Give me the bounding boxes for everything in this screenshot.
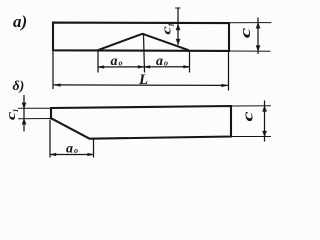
arrow c down (figure b): [263, 131, 267, 137]
svg-text:c: c: [240, 111, 256, 122]
label a0 (figure b): [66, 142, 78, 157]
c1 apex dimension line: [177, 8, 179, 45]
extension line c top (figure b): [231, 105, 271, 107]
extension line c top (figure a): [229, 22, 271, 24]
arrow L left: [54, 84, 61, 87]
extension line a0 left (figure b): [49, 120, 51, 157]
svg-text:1: 1: [11, 109, 20, 113]
arrow a0 right: [184, 65, 190, 68]
svg-text:o: o: [119, 59, 123, 68]
arrow a0 left (figure b): [50, 153, 56, 156]
arrow c1 up: [176, 25, 180, 31]
dimension line a0 (figure b): [50, 154, 94, 156]
svg-text:a: a: [66, 142, 73, 157]
extension line a0 right (figure b): [93, 139, 95, 157]
svg-text:L: L: [138, 72, 148, 88]
extension line a0 right: [189, 51, 191, 73]
extension line c1 bottom (figure b): [19, 118, 52, 120]
label c1 (figure b, rotated): [4, 109, 20, 121]
svg-text:δ): δ): [13, 79, 25, 94]
extension line a0 left: [97, 51, 99, 72]
dimension line a0-a0: [98, 66, 190, 68]
bar outline (figure b): [51, 106, 231, 139]
extension line c bottom (figure b): [231, 136, 271, 138]
arrow a0 left: [98, 66, 104, 69]
arrow c1 down: [176, 39, 180, 45]
svg-text:1: 1: [167, 23, 176, 27]
extension line L left: [52, 52, 54, 89]
arrow a0 right (figure b): [88, 153, 94, 156]
svg-text:a: a: [111, 54, 118, 69]
arrow a0 mid-left: [138, 66, 144, 69]
label a0 (right): [156, 54, 168, 69]
extension line L right: [228, 52, 230, 90]
svg-text:a: a: [156, 54, 163, 69]
label b): [13, 79, 25, 94]
svg-text:o: o: [74, 146, 78, 155]
bar outline (figure a): [53, 23, 229, 51]
label a): [13, 12, 27, 31]
arrow c up (figure b): [263, 106, 267, 112]
svg-text:a): a): [13, 12, 27, 31]
arrow a0 mid-right: [144, 66, 150, 69]
dimension line c (figure a): [257, 18, 259, 54]
dimension line L: [54, 84, 228, 87]
arrow c1 up onto bottom line (figure b): [22, 119, 26, 125]
svg-text:o: o: [164, 59, 168, 68]
label c1 (rotated): [159, 23, 175, 35]
label L: [138, 72, 148, 88]
tick at top of c1 line: [176, 7, 181, 9]
arrow c down (figure a): [256, 46, 260, 52]
label a0 (left): [111, 54, 123, 69]
label c (figure a, rotated): [238, 27, 254, 38]
extension line c1 top (figure b): [19, 107, 52, 109]
hump centerline / middle extension line: [144, 35, 145, 73]
label c (figure b, rotated): [240, 111, 256, 122]
arrow c1 down onto top line (figure b): [22, 103, 26, 109]
hump (triangular thickening): [98, 34, 189, 51]
dimension line c (figure b): [264, 101, 266, 141]
svg-text:c: c: [238, 27, 254, 38]
extension line c bottom (figure a): [229, 50, 270, 52]
arrow c up (figure a): [256, 23, 260, 29]
dimension line c1 (figure b): [23, 96, 25, 132]
arrow L right: [222, 84, 229, 87]
